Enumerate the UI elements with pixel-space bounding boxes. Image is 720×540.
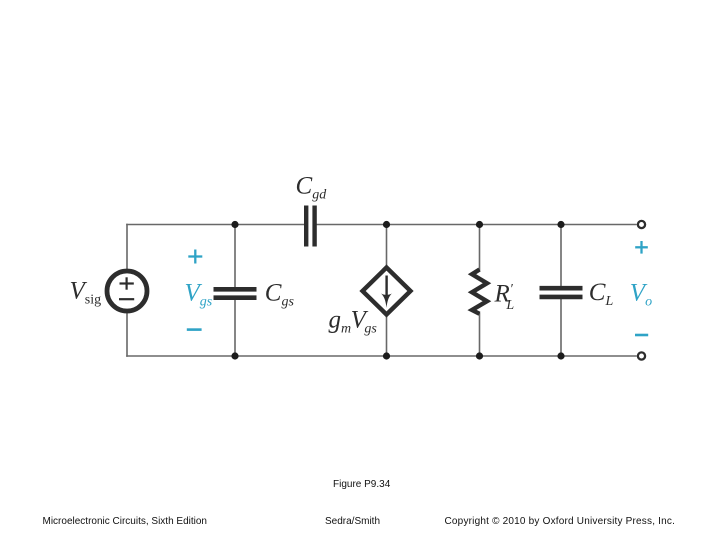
svg-text:Copyright © 2010 by Oxford Uni: Copyright © 2010 by Oxford University Pr… [445,516,676,527]
wire left branch lower [126,313,128,357]
svg-text:Figure P9.34: Figure P9.34 [333,479,391,490]
wire resistor branch lower [479,313,481,357]
wire bottom rail [126,355,637,357]
dependent current source gmVgs diamond [363,268,411,315]
node C top of resistor [476,221,483,228]
output terminal top (open circle) [638,221,645,228]
svg-text:Microelectronic Circuits, Sixt: Microelectronic Circuits, Sixth Edition [43,516,208,527]
wire current-source branch upper [386,224,388,268]
node H bottom of CL [557,352,564,359]
wire Cgs branch lower [234,299,236,357]
wire top rail left segment [126,224,304,226]
capacitor Cgd plates [306,206,314,247]
minus sign inside source [119,298,134,300]
wire resistor branch upper [479,224,481,271]
label V_gs plus polarity (cyan) [188,250,202,264]
node F bottom of current source [383,352,390,359]
resistor R'L zigzag [472,270,487,314]
label V_gs minus polarity (cyan) [187,328,202,331]
wire top rail right segment [317,224,637,226]
node G bottom of resistor [476,352,483,359]
capacitor CL plates [540,288,583,297]
node A top of Cgs [231,221,238,228]
node B top of current source [383,221,390,228]
wire current-source branch lower [386,314,388,357]
label V_o plus polarity (cyan) [635,241,648,254]
capacitor Cgs plates [214,289,257,297]
node D top of CL [557,221,564,228]
wire left branch upper [126,224,128,270]
svg-text:Sedra/Smith: Sedra/Smith [325,516,380,527]
node E bottom of Cgs [231,352,238,359]
plus sign inside source [120,277,134,289]
wire CL branch lower [560,299,562,357]
output terminal bottom (open circle) [638,352,645,359]
wire Cgs branch upper [234,224,236,288]
arrow inside current source [381,276,392,308]
source V_sig [107,271,147,311]
label V_o minus polarity (cyan) [635,334,648,337]
wire CL branch upper [560,224,562,287]
